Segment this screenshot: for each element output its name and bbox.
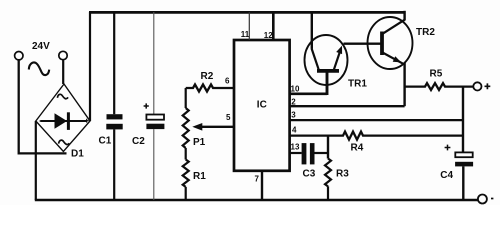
resistor R1 [183,160,189,187]
wire P1 wiper from pin 5 [201,126,234,128]
plus mark for C4 [445,145,451,151]
IC voltage-regulator body [234,40,290,171]
resistor R3 [325,159,331,187]
svg-text:3: 3 [291,111,296,120]
wire P1 bottom to R1 [185,148,187,160]
capacitor C1 [106,12,122,200]
plus sign output [485,83,491,89]
capacitor C4 [455,152,473,200]
pin 3 wire [290,119,463,121]
wire AC1 down and right to bridge left branch [19,60,67,153]
minus sign output [491,198,493,200]
diode inside D1 [40,112,86,130]
svg-text:12: 12 [264,31,273,40]
bridge rectifier D1 diamond [36,84,90,152]
svg-text:D1: D1 [71,148,84,159]
svg-text:R1: R1 [193,171,206,182]
svg-text:24V: 24V [32,41,50,52]
wire output node down [462,87,464,153]
pin 7 lead [261,171,263,200]
sine mark lower inside bridge [59,140,70,144]
wire R3 bottom to rail [327,186,329,200]
capacitor C2 [146,12,164,200]
pin 4 wire with resistor R4 [290,132,463,140]
pin 12 lead [272,12,275,40]
wire bridge left vertex down to bottom rail [35,121,37,200]
top rail wire [89,11,405,14]
wire node pin4/C3/R3 junction [327,136,329,159]
wire bridge right vertex up to top rail [89,12,91,121]
bottom rail wire [35,199,478,202]
sine mark upper inside bridge [57,94,68,98]
svg-text:C1: C1 [99,136,112,147]
resistor R2 [186,85,234,92]
AC sine symbol [29,63,49,76]
svg-text:TR2: TR2 [416,27,435,38]
svg-text:2: 2 [291,98,296,107]
wire R1 bottom to rail [185,187,187,200]
pin 10 wire to TR1 base [290,93,327,96]
resistor R5 [405,83,474,90]
svg-text:R2: R2 [201,71,214,82]
svg-text:7: 7 [255,175,260,184]
svg-text:R5: R5 [430,68,443,79]
svg-text:6: 6 [225,76,230,85]
terminal output plus [473,82,481,90]
wire R2 left to P1 top [185,88,187,108]
svg-text:C4: C4 [440,170,453,181]
wire AC2 down to bridge top vertex [62,60,64,84]
svg-text:4: 4 [292,126,297,135]
wire TR2 emitter down [403,63,405,107]
svg-text:IC: IC [257,100,267,111]
wire TR1 emitter to TR2 base [344,43,381,45]
svg-text:13: 13 [291,142,300,151]
terminal AC input left [15,52,23,60]
svg-text:C3: C3 [303,169,316,180]
pin 2 wire [290,105,405,107]
svg-text:R4: R4 [351,143,364,154]
pin 13 wire [290,152,302,154]
plus mark for C2 [144,103,149,108]
plus mark at bridge right [85,119,89,123]
pin 11 lead [248,12,250,40]
svg-text:5: 5 [226,113,231,122]
wire TR1 collector to top rail [311,12,313,49]
capacitor C3 [302,143,328,164]
svg-text:P1: P1 [193,137,206,148]
minus mark at bridge left [40,120,44,122]
transistor TR1 [305,35,348,95]
svg-text:C2: C2 [132,136,145,147]
svg-text:TR1: TR1 [348,78,367,89]
terminal AC input right [59,51,67,59]
svg-text:10: 10 [291,85,300,94]
transistor TR2 [368,17,413,69]
arrowhead of P1 wiper [192,123,202,131]
svg-text:R3: R3 [336,169,349,180]
terminal output minus [478,195,487,204]
svg-text:11: 11 [241,30,250,39]
wire TR2 collector to top rail corner [403,11,405,21]
potentiometer P1 [183,108,189,148]
